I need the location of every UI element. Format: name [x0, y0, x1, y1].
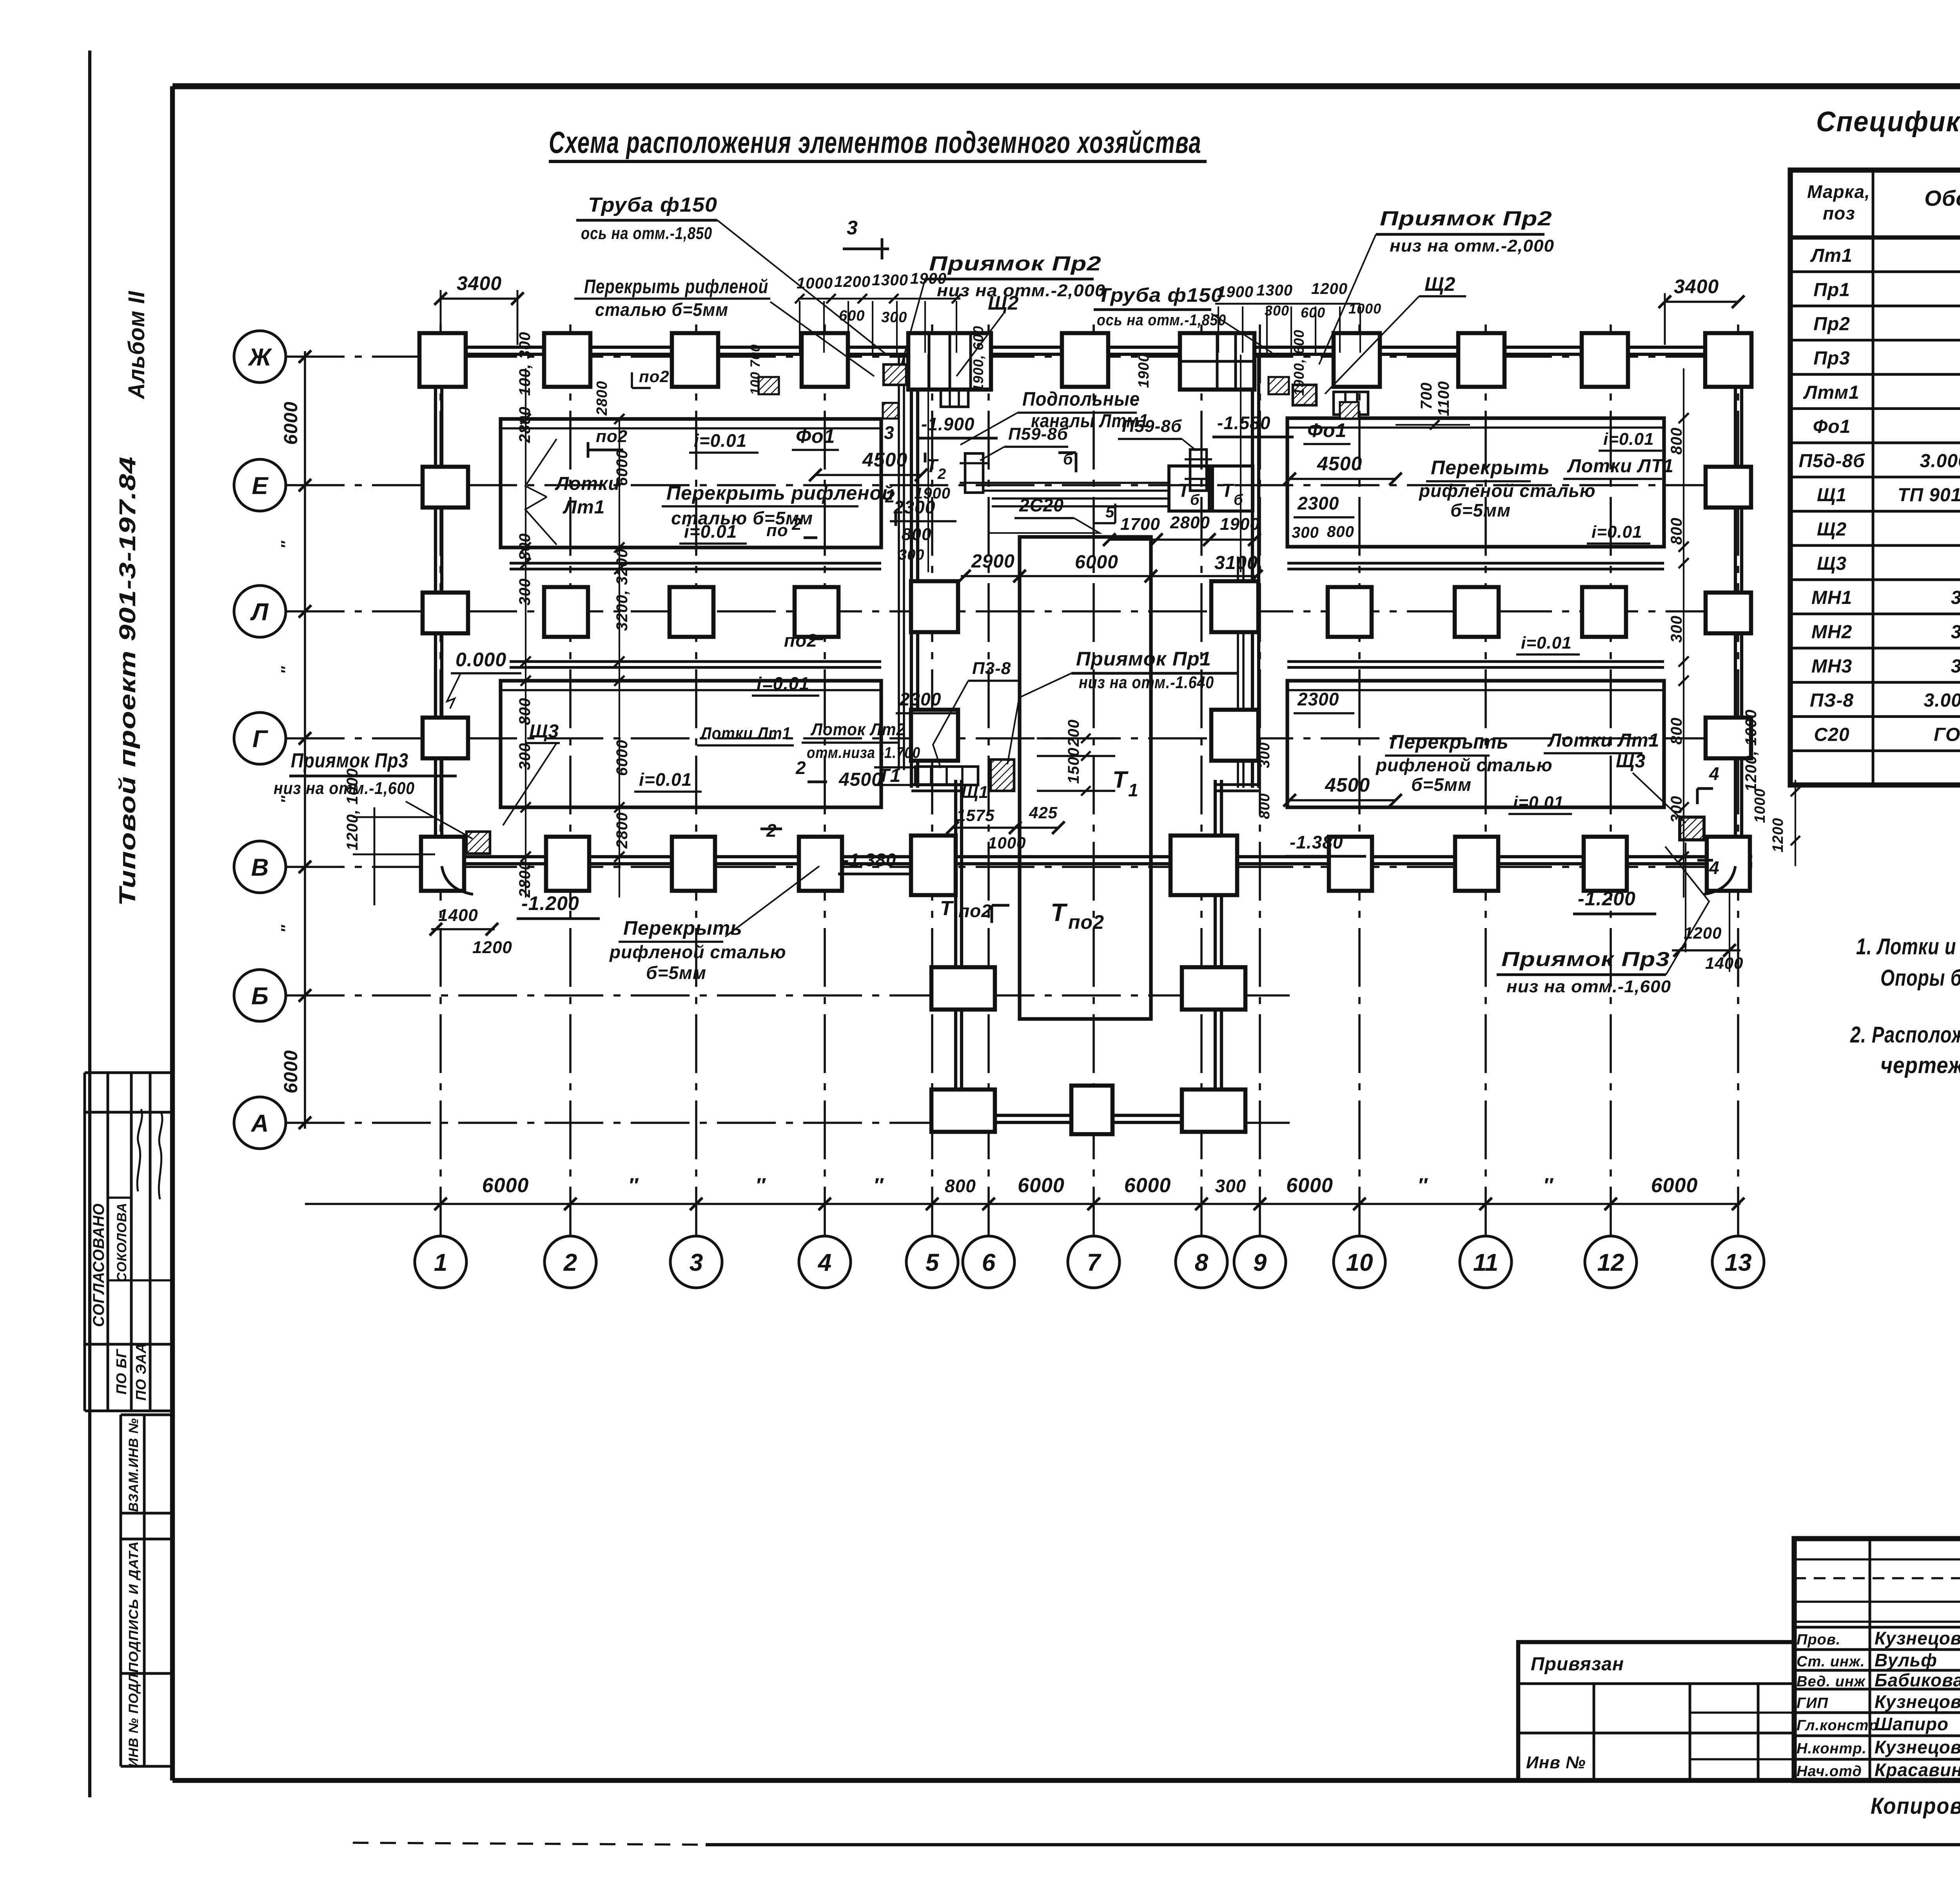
pit Pr3 hatched bottom left — [466, 832, 490, 854]
svg-text:Щ2: Щ2 — [1817, 519, 1847, 540]
svg-text:Труба ф150: Труба ф150 — [588, 194, 717, 216]
horizontal axis lines — [286, 355, 1752, 358]
svg-text:СОКОЛОВА: СОКОЛОВА — [114, 1202, 129, 1282]
pit Pr2 hatched right second — [1340, 402, 1359, 419]
sheet outer left edge line — [88, 51, 91, 1797]
sidebar inv table — [120, 1415, 122, 1766]
svg-text:П5д-8б: П5д-8б — [1798, 451, 1865, 471]
lane rect right top — [1287, 418, 1664, 547]
lane rect right bottom — [1287, 681, 1664, 807]
lane rect left bottom — [501, 681, 881, 807]
svg-text:5: 5 — [1105, 504, 1114, 521]
leader pr1 — [1007, 673, 1071, 764]
svg-text:Кузнецов: Кузнецов — [1875, 1737, 1960, 1757]
svg-text:3: 3 — [847, 217, 858, 239]
svg-text:1200: 1200 — [834, 273, 871, 290]
svg-text:800: 800 — [1668, 427, 1685, 455]
svg-text:-1.200: -1.200 — [1578, 888, 1636, 910]
central wall left extra line — [898, 354, 900, 770]
columns on axis Zh wall — [419, 333, 466, 387]
drawing frame top — [172, 83, 1960, 89]
svg-text:1. Лотки и приямки выполнять и: 1. Лотки и приямки выполнять из бетона М… — [1856, 934, 1960, 959]
svg-text:ось на отм.-1,850: ось на отм.-1,850 — [1097, 312, 1226, 329]
svg-text:1000: 1000 — [988, 834, 1026, 852]
svg-text:800: 800 — [1256, 793, 1273, 819]
right outer wall — [1734, 347, 1737, 864]
svg-text:рифленой сталью: рифленой сталью — [1418, 480, 1596, 501]
svg-text:″: ″ — [278, 666, 296, 674]
axis column circles — [415, 1236, 466, 1288]
section small ticks near axis7 — [1093, 638, 1095, 640]
spec table frame — [1790, 170, 1960, 785]
sidebar stamp table soglasovano — [83, 1073, 86, 1411]
svg-text:6000: 6000 — [1018, 1174, 1065, 1197]
svg-text:7: 7 — [1087, 1249, 1102, 1276]
svg-text:ПО БГ: ПО БГ — [113, 1349, 129, 1394]
svg-text:200: 200 — [1065, 719, 1082, 747]
svg-text:3.400-6/7б: 3.400-6/7б — [1951, 587, 1960, 608]
title block outer box — [1794, 1539, 1960, 1780]
hatch small top lane left — [759, 377, 779, 394]
names area narrow top rows — [1794, 1558, 1960, 1561]
svg-text:Спецификация к схеме распол: Спецификация к схеме расположения элемен… — [1816, 106, 1960, 138]
svg-text:3200, 3200: 3200, 3200 — [613, 549, 631, 631]
svg-text:800: 800 — [1327, 523, 1354, 540]
svg-text:Г: Г — [252, 725, 269, 752]
svg-text:МН2: МН2 — [1811, 622, 1852, 642]
svg-text:3.006-2 Вып.П-2: 3.006-2 Вып.П-2 — [1920, 451, 1960, 471]
leader truba mid — [1211, 314, 1272, 353]
svg-text:Н.контр.: Н.контр. — [1797, 1740, 1867, 1757]
svg-text:Щ3: Щ3 — [1817, 553, 1847, 574]
pit hatch left lower — [883, 403, 898, 419]
top dim extension lines left cluster — [799, 301, 800, 353]
lane middle lines left — [510, 562, 881, 565]
svg-text:1000: 1000 — [797, 275, 833, 292]
svg-text:1200: 1200 — [1311, 280, 1348, 297]
svg-text:2300: 2300 — [1297, 493, 1339, 513]
svg-text:поз: поз — [1823, 203, 1855, 223]
svg-text:1575: 1575 — [956, 806, 995, 825]
svg-text:рифленой сталью: рифленой сталью — [1375, 755, 1553, 775]
svg-text:-1.900: -1.900 — [921, 414, 975, 434]
svg-text:1900: 1900 — [1217, 283, 1254, 301]
svg-text:Т: Т — [1112, 767, 1129, 793]
svg-text:1300: 1300 — [1256, 282, 1293, 299]
axis row circles — [234, 331, 286, 383]
svg-text:-1.380: -1.380 — [1290, 832, 1343, 852]
svg-text:Перекрыть рифленой: Перекрыть рифленой — [584, 276, 768, 297]
svg-text:ТП 901- -КЖИ. Щ1: ТП 901- -КЖИ. Щ1 — [1898, 485, 1960, 506]
svg-text:425: 425 — [1029, 803, 1058, 822]
svg-text:4500: 4500 — [862, 449, 907, 471]
svg-text:Пр1: Пр1 — [1813, 279, 1850, 300]
svg-text:2: 2 — [937, 466, 946, 482]
svg-text:-1.580: -1.580 — [1217, 413, 1270, 433]
svg-text:1900, 600: 1900, 600 — [1291, 330, 1307, 396]
svg-text:1200, 1000: 1200, 1000 — [1742, 709, 1760, 792]
svg-text:1: 1 — [1128, 780, 1139, 800]
svg-text:9: 9 — [1253, 1249, 1267, 1276]
svg-text:низ на отм.-2,000: низ на отм.-2,000 — [937, 281, 1105, 300]
svg-text:4500: 4500 — [1317, 453, 1362, 475]
svg-text:Т: Т — [1051, 898, 1068, 926]
svg-text:Л: Л — [250, 598, 269, 625]
svg-text:Кузнецов: Кузнецов — [1875, 1691, 1960, 1712]
sidebar signature 1 — [137, 1109, 142, 1191]
svg-text:Фо1: Фо1 — [1307, 419, 1347, 441]
svg-text:″: ″ — [1417, 1174, 1428, 1197]
svg-text:ПО ЭАА: ПО ЭАА — [133, 1343, 149, 1401]
svg-text:ГИП: ГИП — [1797, 1695, 1828, 1711]
svg-text:С20: С20 — [1814, 724, 1849, 745]
svg-text:2: 2 — [885, 487, 895, 506]
svg-text:6000: 6000 — [281, 1050, 301, 1093]
svg-text:6: 6 — [982, 1249, 996, 1276]
svg-text:В: В — [251, 854, 269, 881]
svg-text:Приямок Пр3: Приямок Пр3 — [1501, 948, 1670, 971]
svg-text:Т: Т — [1178, 480, 1191, 501]
svg-text:б: б — [1190, 492, 1200, 508]
dim chain central right — [1240, 355, 1241, 572]
svg-text:Лотки Лт1: Лотки Лт1 — [1547, 730, 1659, 751]
small plates near Sch1 — [915, 767, 978, 785]
names area verticals — [1869, 1539, 1871, 1780]
svg-text:5: 5 — [926, 1249, 940, 1276]
drawing frame left — [170, 86, 175, 1780]
svg-text:Кузнецов: Кузнецов — [1875, 1628, 1960, 1648]
svg-text:1200: 1200 — [1684, 924, 1722, 942]
svg-text:300: 300 — [1256, 742, 1273, 768]
central wall jog right — [1215, 783, 1259, 786]
left outer wall — [434, 347, 437, 864]
svg-text:1900: 1900 — [1136, 353, 1152, 388]
dim chain left block inner — [525, 368, 526, 897]
svg-text:6000: 6000 — [1651, 1174, 1698, 1197]
svg-text:2300: 2300 — [893, 497, 935, 517]
svg-text:Приямок Пр2: Приямок Пр2 — [1380, 207, 1552, 230]
svg-text:6000: 6000 — [281, 401, 301, 445]
dim chain right block — [1683, 368, 1684, 897]
svg-text:ВЗАМ.ИНВ №: ВЗАМ.ИНВ № — [126, 1418, 141, 1512]
left dimension line — [304, 351, 306, 1129]
svg-text:1300: 1300 — [872, 272, 908, 289]
svg-text:3.006-2 вып.П-2: 3.006-2 вып.П-2 — [1924, 690, 1960, 711]
svg-text:Гл.констр: Гл.констр — [1797, 1717, 1878, 1734]
central tall room T po2 — [1020, 537, 1151, 1019]
svg-text:Перекрыть: Перекрыть — [623, 917, 742, 939]
central columns left side upper — [911, 581, 958, 632]
leader pr3 left — [406, 801, 472, 839]
svg-text:1100: 1100 — [1435, 381, 1452, 416]
columns right wall — [1706, 467, 1751, 508]
svg-text:Лт1: Лт1 — [563, 497, 605, 518]
svg-text:100 700: 100 700 — [748, 344, 763, 395]
hatch small top lane right — [1269, 377, 1289, 394]
svg-text:Бабикова: Бабикова — [1875, 1670, 1960, 1690]
svg-text:П59-8б: П59-8б — [1122, 417, 1182, 436]
central wall right lower — [1214, 780, 1217, 1109]
svg-text:2900: 2900 — [971, 551, 1015, 572]
central column left row V — [911, 836, 956, 895]
svg-text:рифленой сталью: рифленой сталью — [609, 942, 786, 962]
svg-text:i=0.01: i=0.01 — [1603, 430, 1654, 449]
svg-text:б: б — [1234, 492, 1243, 508]
svg-text:4: 4 — [1709, 763, 1720, 784]
svg-text:чертежам.: чертежам. — [1880, 1053, 1960, 1078]
drawing frame bottom — [172, 1778, 1960, 1783]
svg-text:6000: 6000 — [1075, 552, 1118, 573]
top dim extension lines right cluster — [1218, 306, 1219, 353]
svg-text:отм.низа -1.700: отм.низа -1.700 — [807, 744, 920, 761]
svg-text:Лтм1: Лтм1 — [1803, 382, 1859, 403]
vertical axis lines — [439, 324, 442, 1235]
central columns right side lower — [1182, 967, 1245, 1010]
svg-text:3.400-6/7б: 3.400-6/7б — [1951, 656, 1960, 677]
svg-text:2300: 2300 — [899, 689, 941, 709]
svg-text:13: 13 — [1725, 1249, 1752, 1276]
central column bottom middle — [1071, 1086, 1112, 1134]
svg-text:Лоток Лт2: Лоток Лт2 — [810, 720, 906, 739]
dim chain central left — [927, 355, 929, 572]
svg-text:″: ″ — [628, 1174, 639, 1197]
plate under column axis 10-ish — [1334, 392, 1368, 415]
svg-text:12: 12 — [1597, 1249, 1624, 1276]
svg-text:Фо1: Фо1 — [796, 425, 835, 447]
dim chain left block second — [619, 419, 620, 897]
svg-text:по: по — [766, 521, 788, 540]
svg-text:600: 600 — [839, 308, 865, 324]
leader pr3 right — [1665, 847, 1709, 975]
svg-text:11: 11 — [1473, 1249, 1498, 1276]
svg-text:Шапиро: Шапиро — [1875, 1714, 1949, 1734]
svg-text:i=0.01: i=0.01 — [1592, 522, 1642, 542]
big structure axis 5-6 top — [908, 333, 991, 390]
central columns left side lower — [931, 967, 995, 1010]
svg-text:1900, 600: 1900, 600 — [970, 326, 986, 392]
central wall right upper — [1251, 354, 1254, 788]
svg-text:СОГЛАСОВАНО: СОГЛАСОВАНО — [90, 1203, 107, 1327]
svg-text:2С20: 2С20 — [1019, 495, 1064, 515]
svg-text:800: 800 — [1668, 717, 1685, 745]
leader pr2 left — [902, 279, 925, 364]
svg-text:Подпольные: Подпольные — [1022, 388, 1140, 410]
pit Pr3 hatched bottom right — [1680, 817, 1704, 840]
svg-text:ось на отм.-1,850: ось на отм.-1,850 — [581, 224, 712, 243]
svg-text:Т1: Т1 — [878, 765, 901, 786]
corner wall arc bottom-left — [442, 866, 473, 894]
svg-text:Б: Б — [251, 983, 269, 1010]
svg-text:3.400-6/7б: 3.400-6/7б — [1951, 622, 1960, 642]
sidebar signature 2 — [159, 1113, 162, 1199]
svg-text:i=0.01: i=0.01 — [684, 521, 737, 542]
svg-text:″: ″ — [278, 540, 296, 549]
names area row lines — [1794, 1626, 1960, 1629]
svg-text:3400: 3400 — [1674, 276, 1719, 297]
svg-text:низ на отм.-1,600: низ на отм.-1,600 — [1506, 977, 1671, 996]
svg-text:700: 700 — [1418, 382, 1435, 410]
svg-text:Ст. инж.: Ст. инж. — [1797, 1653, 1865, 1670]
svg-text:Лотки: Лотки — [555, 473, 620, 494]
svg-text:П59-8б: П59-8б — [1008, 424, 1069, 444]
interior columns row L left block — [544, 587, 588, 637]
svg-text:Щ2: Щ2 — [988, 292, 1019, 314]
channel lines central — [983, 482, 1169, 484]
svg-text:Лотки Лт1: Лотки Лт1 — [700, 724, 791, 743]
svg-text:10: 10 — [1346, 1249, 1373, 1276]
svg-text:1200: 1200 — [472, 938, 512, 957]
lane rect left top — [501, 419, 881, 547]
svg-text:-1.200: -1.200 — [521, 892, 579, 914]
svg-text:Перекрыть рифленой: Перекрыть рифленой — [666, 482, 895, 504]
pit Pr2 hatched left — [884, 364, 906, 385]
svg-text:Приямок Пр2: Приямок Пр2 — [929, 252, 1102, 275]
leader perekryt top-left — [770, 302, 874, 376]
svg-text:1200, 1000: 1200, 1000 — [344, 768, 361, 850]
leader perekryt bottom-left — [725, 866, 819, 937]
svg-text:2800: 2800 — [613, 812, 631, 849]
svg-text:4500: 4500 — [838, 769, 882, 790]
svg-text:Щ3: Щ3 — [1616, 751, 1646, 772]
leader truba left — [717, 220, 887, 355]
T6 boxes — [1169, 466, 1209, 511]
svg-text:Труба ф150: Труба ф150 — [1098, 284, 1223, 306]
lane middle lines right — [1287, 562, 1664, 565]
svg-text:6000: 6000 — [1286, 1174, 1333, 1197]
svg-text:МН1: МН1 — [1811, 587, 1852, 608]
svg-text:по2: по2 — [784, 630, 817, 651]
svg-text:Пр3: Пр3 — [1813, 348, 1850, 369]
svg-text:Копировал: Корецкая: Копировал: Корецкая — [1871, 1793, 1960, 1819]
svg-text:Перекрыть: Перекрыть — [1431, 457, 1550, 479]
svg-text:Схема расположения элементов: Схема расположения элементов подземного … — [549, 125, 1201, 160]
columns on axis V wall — [421, 837, 464, 891]
svg-text:6000: 6000 — [613, 740, 631, 776]
pit Pr2 hatched right — [1293, 385, 1316, 405]
svg-text:2: 2 — [795, 758, 806, 778]
svg-text:по2: по2 — [1068, 911, 1104, 933]
svg-text:1500: 1500 — [1065, 747, 1082, 784]
svg-text:б=5мм: б=5мм — [646, 963, 706, 983]
svg-text:Пров.: Пров. — [1797, 1632, 1840, 1648]
svg-text:4500: 4500 — [1325, 774, 1370, 796]
svg-text:по2: по2 — [958, 901, 992, 921]
svg-text:Типовой проект 901-3-197.84: Типовой проект 901-3-197.84 — [115, 456, 140, 906]
wall along axis Zh — [425, 346, 1752, 349]
svg-text:б=5мм: б=5мм — [1450, 500, 1511, 520]
pit Pr1 hatched central — [991, 760, 1014, 791]
svg-text:ИНВ № ПОДЛ: ИНВ № ПОДЛ — [126, 1673, 141, 1767]
svg-text:i=0.01: i=0.01 — [1521, 633, 1572, 653]
svg-text:2800: 2800 — [1170, 513, 1210, 532]
svg-text:8: 8 — [1195, 1249, 1209, 1276]
svg-text:1900: 1900 — [910, 270, 947, 287]
central bottom connecting wall lines — [995, 1114, 1071, 1117]
svg-text:Т: Т — [940, 897, 954, 920]
svg-text:Щ3: Щ3 — [529, 721, 559, 742]
svg-text:3400: 3400 — [457, 272, 502, 294]
columns left wall — [423, 467, 468, 508]
svg-text:по2: по2 — [596, 427, 628, 446]
central wall left upper — [910, 354, 913, 788]
small plate below axis 5 structure — [941, 390, 968, 407]
svg-text:2800: 2800 — [594, 381, 610, 416]
svg-text:2300: 2300 — [1297, 689, 1339, 709]
svg-text:Инв №: Инв № — [1526, 1753, 1586, 1772]
svg-text:3: 3 — [690, 1249, 703, 1276]
svg-text:1400: 1400 — [1705, 954, 1743, 972]
plate symbol right — [1190, 450, 1207, 491]
svg-text:6000: 6000 — [482, 1174, 529, 1197]
privyazan box — [1518, 1642, 1794, 1780]
svg-text:Привязан: Привязан — [1531, 1654, 1624, 1675]
svg-text:Е: Е — [252, 472, 269, 499]
svg-text:1000: 1000 — [1348, 301, 1381, 317]
svg-text:ГОСТ 8240-72: ГОСТ 8240-72 — [1934, 724, 1960, 745]
svg-text:300: 300 — [1668, 615, 1685, 643]
svg-text:Лт1: Лт1 — [1810, 245, 1852, 266]
svg-text:800: 800 — [902, 525, 931, 544]
big structure axis 8 top — [1180, 333, 1254, 390]
svg-text:Т: Т — [1221, 480, 1234, 501]
svg-text:Щ1: Щ1 — [1817, 485, 1847, 506]
central columns right side upper — [1211, 581, 1258, 632]
wall along axis V — [425, 855, 1752, 858]
svg-text:Приямок Пр1: Приямок Пр1 — [1076, 648, 1211, 670]
channel lines to pit Pr1 — [874, 766, 915, 769]
svg-text:по2: по2 — [639, 367, 670, 386]
svg-text:2: 2 — [766, 820, 777, 841]
svg-text:Опоры бетонные и фундамент Фо: Опоры бетонные и фундамент Фо1 из бетона… — [1880, 965, 1960, 991]
svg-text:сталью б=5мм: сталью б=5мм — [595, 299, 728, 320]
svg-text:Марка,: Марка, — [1807, 181, 1870, 202]
svg-text:2: 2 — [791, 515, 802, 534]
plate symbol left — [965, 453, 983, 493]
central column right row V — [1171, 836, 1237, 895]
sheet bottom edge line — [706, 1843, 1960, 1846]
svg-text:300: 300 — [898, 547, 924, 563]
svg-text:Перекрыть: Перекрыть — [1390, 731, 1509, 753]
central wall right extra line — [1237, 557, 1239, 788]
svg-text:i=0.01: i=0.01 — [694, 430, 747, 451]
corner wall arc bottom-right — [1704, 866, 1735, 894]
svg-text:-1.380: -1.380 — [843, 850, 896, 870]
svg-text:2. Расположение бетонных опор: 2. Расположение бетонных опор см. по тех… — [1850, 1022, 1960, 1048]
svg-text:Щ2: Щ2 — [1425, 273, 1455, 295]
svg-text:Красавин: Красавин — [1875, 1760, 1960, 1780]
svg-text:300: 300 — [1215, 1176, 1247, 1196]
svg-text:1000: 1000 — [1752, 788, 1768, 823]
svg-text:i=0.01: i=0.01 — [639, 769, 692, 790]
svg-text:Ж: Ж — [247, 344, 272, 371]
svg-text:i=0.01: i=0.01 — [1513, 793, 1564, 812]
svg-text:Вульф: Вульф — [1875, 1650, 1937, 1670]
svg-text:1200: 1200 — [1770, 818, 1786, 852]
svg-text:300: 300 — [881, 309, 907, 326]
svg-text:Вед. инж: Вед. инж — [1797, 1673, 1866, 1690]
svg-text:Обозначение: Обозначение — [1924, 186, 1960, 210]
svg-text:″: ″ — [755, 1174, 766, 1197]
svg-text:А: А — [250, 1110, 269, 1137]
leader pr2 right — [1319, 234, 1376, 364]
svg-text:6000: 6000 — [1124, 1174, 1171, 1197]
svg-text:800: 800 — [945, 1176, 976, 1196]
svg-text:300: 300 — [1265, 303, 1289, 319]
svg-text:″: ″ — [1543, 1174, 1554, 1197]
svg-text:Нач.отд: Нач.отд — [1797, 1763, 1862, 1780]
central wall left lower — [954, 780, 957, 1109]
svg-text:i=0.01: i=0.01 — [757, 673, 809, 694]
